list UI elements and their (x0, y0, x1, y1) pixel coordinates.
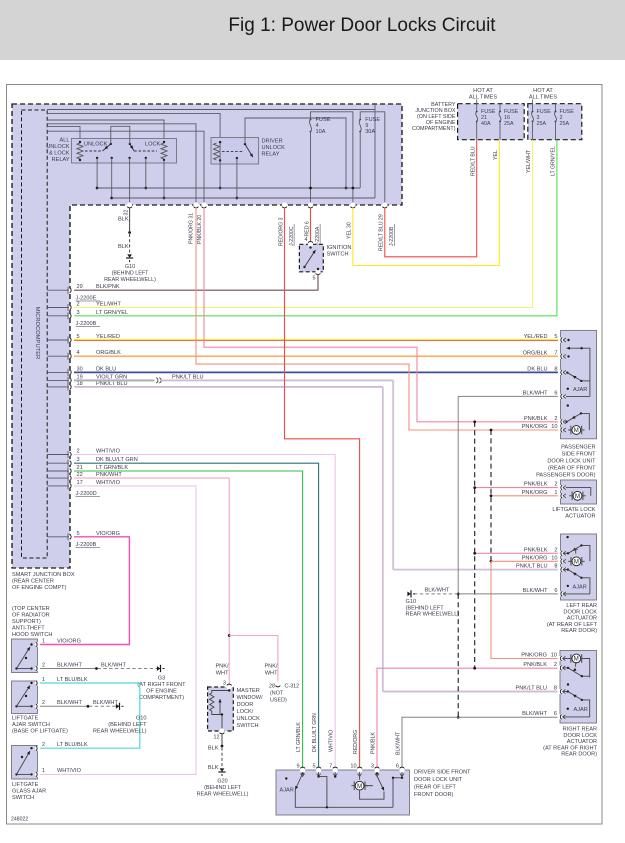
svg-text:10: 10 (350, 764, 356, 770)
svg-text:10: 10 (551, 424, 557, 430)
svg-text:COMPARTMENT): COMPARTMENT) (412, 126, 456, 132)
svg-text:WHT/VIO: WHT/VIO (96, 480, 121, 486)
fuse F4 10A (310, 119, 312, 121)
svg-text:REAR DOOR): REAR DOOR) (561, 752, 597, 758)
wire feed yB to driver relay coil (47, 113, 220, 142)
svg-text:2: 2 (554, 547, 557, 553)
svg-text:COMPARTMENT): COMPARTMENT) (139, 695, 184, 701)
feed stub fuse 21 (476, 100, 478, 111)
SJB pin 2 YEL/WHT (47, 307, 70, 309)
svg-text:SIDE FRONT: SIDE FRONT (562, 452, 596, 458)
SJB pin 3 DK BLU/LT GRN (47, 462, 70, 464)
connector C-312 pin 28 (not used) (275, 681, 280, 686)
svg-text:RED/ORG: RED/ORG (353, 730, 359, 754)
wire PNK/BLK exit20 to passenger pin 2 (204, 208, 559, 422)
svg-text:G10: G10 (136, 716, 147, 722)
svg-text:5: 5 (554, 334, 557, 340)
wire feed yG to exit 20 (47, 131, 204, 205)
svg-text:DOOR LOCK: DOOR LOCK (563, 733, 597, 739)
svg-text:YEL/RED: YEL/RED (524, 334, 548, 340)
wire RED/ORG exit3 to driver pin 10 (285, 208, 360, 769)
svg-text:5: 5 (77, 531, 80, 537)
svg-text:2: 2 (554, 482, 557, 488)
svg-text:J-2200D: J-2200D (76, 491, 97, 497)
svg-text:WINDOW/: WINDOW/ (237, 695, 264, 701)
svg-text:REAR WHEELWELL): REAR WHEELWELL) (93, 729, 147, 735)
fuse F3 25A (532, 111, 534, 113)
svg-text:ALL: ALL (60, 138, 70, 144)
svg-text:WHT: WHT (216, 671, 229, 677)
svg-text:RIGHT REAR: RIGHT REAR (563, 727, 597, 733)
wire PNK/ORG to liftgate actuator pin 1 (491, 495, 559, 497)
exit 6 RED + J-2200A (308, 202, 313, 207)
svg-text:(AT RIGHT FRONT: (AT RIGHT FRONT (137, 682, 186, 688)
svg-text:HOT AT: HOT AT (533, 88, 553, 94)
svg-text:UNLOCK: UNLOCK (262, 145, 286, 151)
svg-text:LOCK: LOCK (145, 142, 161, 148)
wire PNK/WHT branch to connector C-312 pin 28 (229, 636, 278, 684)
svg-text:UNLOCK: UNLOCK (237, 716, 261, 722)
svg-text:(BEHIND LEFT: (BEHIND LEFT (406, 605, 445, 611)
svg-text:RED/ORG 3: RED/ORG 3 (278, 217, 284, 246)
svg-text:MASTER: MASTER (237, 688, 260, 694)
driver side front door lock unit box (276, 770, 410, 815)
svg-text:BLK: BLK (208, 746, 219, 752)
wire driver relay contact up and over to bus1 (245, 118, 346, 188)
svg-text:28: 28 (269, 684, 275, 690)
wire ORG/BLK pin4 to passenger pin 7 (74, 355, 559, 357)
svg-text:G10: G10 (125, 264, 135, 270)
exit 29 RED/LT BLU + J-2200B (382, 202, 387, 207)
svg-text:YEL/WHT: YEL/WHT (526, 149, 532, 173)
exit 31 PNK/ORG (193, 202, 198, 207)
ground G10 (liftgate) (116, 703, 124, 710)
junction dot PNK/BLK bottom (473, 667, 476, 670)
svg-text:PNK/: PNK/ (215, 664, 229, 670)
svg-text:25A: 25A (504, 121, 514, 127)
svg-text:DOOR LOCK UNIT: DOOR LOCK UNIT (414, 777, 463, 783)
svg-text:(BEHIND LEFT: (BEHIND LEFT (112, 271, 150, 277)
svg-text:8: 8 (554, 366, 557, 372)
svg-text:(AT REAR OF LEFT: (AT REAR OF LEFT (547, 622, 598, 628)
svg-text:ORG/BLK: ORG/BLK (96, 350, 121, 356)
svg-text:PNK/ORG: PNK/ORG (522, 555, 548, 561)
wire unlock throw to bus1 (96, 158, 98, 188)
svg-text:SWITCH: SWITCH (327, 252, 349, 258)
svg-text:LT GRN/BLK: LT GRN/BLK (296, 722, 302, 752)
wire DK BLU pin30 to passenger pin 8 (74, 371, 559, 373)
wire VIO/LT GRN pin19 to splice (two-tone) (74, 379, 155, 381)
wire PNK/ORG exit31 to passenger pin 10 (196, 208, 559, 431)
svg-text:10: 10 (551, 653, 557, 659)
wire feed yD to lock relay coil (47, 120, 164, 142)
svg-text:PNK/BLK: PNK/BLK (524, 547, 548, 553)
SJB pin 21 LT GRN/BLK (47, 470, 70, 472)
svg-text:YEL: YEL (493, 150, 499, 160)
svg-text:PNK/BLK 20: PNK/BLK 20 (197, 215, 203, 244)
battery junction box fuse block 1 (458, 104, 525, 140)
ground G20 (218, 768, 225, 776)
svg-text:25A: 25A (560, 121, 570, 127)
unlock throw contacts (96, 157, 98, 159)
driver pin 6 (399, 767, 404, 772)
svg-text:7: 7 (554, 350, 557, 356)
svg-text:AJAR: AJAR (573, 584, 587, 590)
svg-text:OF ENGINE: OF ENGINE (146, 689, 177, 695)
svg-text:DOOR LOCK: DOOR LOCK (563, 609, 597, 615)
svg-text:17: 17 (77, 480, 83, 486)
anti-theft hood switch box (12, 639, 38, 673)
svg-text:10: 10 (551, 555, 557, 561)
svg-text:(REAR OF FRONT: (REAR OF FRONT (548, 466, 596, 472)
svg-text:29: 29 (77, 284, 83, 290)
SJB pin 30 DK BLU (47, 371, 70, 373)
svg-text:DOOR LOCK UNIT: DOOR LOCK UNIT (547, 459, 596, 465)
driver pin 10 (357, 767, 362, 772)
liftgate ajar switch internals (30, 682, 32, 684)
wire PNK/LT BLU splice to left rear pin 8 (two-tone) (161, 380, 559, 569)
splice symbol (156, 378, 161, 383)
svg-text:2: 2 (42, 742, 45, 748)
svg-text:1: 1 (42, 768, 45, 774)
svg-text:DRIVER SIDE FRONT: DRIVER SIDE FRONT (414, 770, 471, 776)
pin 10 PNK/ORG (558, 559, 563, 564)
wire BLK/WHT liftgate ajar to ground G10 (40, 705, 87, 707)
pin 6 BLK/WHT (557, 714, 562, 719)
SJB pin 17 WHT/VIO (47, 485, 70, 487)
wire PNK/BLK bottom run driver pin 2 to right rear pin 2 (377, 668, 559, 768)
SJB pin 5 YEL/RED (47, 339, 70, 341)
svg-text:6: 6 (554, 711, 557, 717)
driver pin 7 (333, 767, 338, 772)
svg-text:PNK/ORG: PNK/ORG (522, 490, 548, 496)
svg-text:RED/LT BLU: RED/LT BLU (470, 146, 476, 176)
pin 10 PNK/ORG (558, 427, 563, 432)
pin 8 PNK/LT BLU (557, 689, 562, 694)
svg-text:5: 5 (313, 276, 316, 282)
svg-text:AJAR SWITCH: AJAR SWITCH (12, 722, 50, 728)
driver lock motor (359, 772, 361, 780)
contact bridge over switch bars (111, 126, 130, 144)
feed stub fuse 3 (532, 100, 534, 111)
master switch box (208, 687, 234, 731)
distribution dashed PNK/BLK vertical (474, 422, 476, 668)
svg-text:DK BLU/LT GRN: DK BLU/LT GRN (96, 457, 138, 463)
wire PNK/WHT pin22 to master switch pin 3 (74, 478, 229, 685)
relay box ALL UNLOCK & LOCK (72, 139, 177, 164)
wire feed yE to unlock relay coil (47, 127, 80, 142)
svg-text:PNK/BLK: PNK/BLK (371, 732, 377, 754)
svg-text:(TOP CENTER: (TOP CENTER (12, 606, 50, 612)
svg-text:PNK/: PNK/ (264, 664, 278, 670)
wire BLK/WHT dashed vertical down (457, 594, 459, 717)
wire feed yA (47, 109, 375, 111)
left rear internals (566, 536, 568, 538)
driver relay switch (dashed bar and arm) (222, 151, 244, 153)
svg-text:3: 3 (77, 457, 80, 463)
liftgate glass ajar switch box (12, 746, 38, 780)
svg-text:AJAR: AJAR (574, 707, 588, 713)
svg-text:22: 22 (77, 472, 83, 478)
svg-text:8: 8 (554, 564, 557, 570)
svg-text:5: 5 (312, 764, 315, 770)
svg-text:OF ENGINE COMPT): OF ENGINE COMPT) (12, 585, 67, 591)
microcomputer box (22, 110, 48, 558)
svg-text:ACTUATOR: ACTUATOR (567, 739, 597, 745)
fuse F16 25A (499, 104, 501, 112)
junction dot BLK/WHT at G10 branch (457, 593, 460, 596)
svg-text:LT GRN/YEL: LT GRN/YEL (96, 310, 128, 316)
svg-text:M: M (574, 657, 579, 663)
svg-text:BLK/WHT: BLK/WHT (57, 663, 82, 669)
wire feed yC to exit 31 (47, 124, 196, 205)
svg-text:6: 6 (554, 390, 557, 396)
svg-text:IGNITION: IGNITION (327, 245, 352, 251)
svg-text:PNK/WHT: PNK/WHT (96, 472, 122, 478)
junction dot BLK/WHT bottom (457, 716, 460, 719)
svg-text:BLK/WHT: BLK/WHT (522, 711, 547, 717)
wire WHT/VIO pin17 to liftgate glass ajar pin 1 (40, 486, 196, 775)
svg-text:PNK/BLK: PNK/BLK (523, 662, 547, 668)
exit BLK 32 (127, 202, 132, 207)
fuse F2 25A (555, 104, 557, 112)
svg-text:3: 3 (223, 681, 226, 687)
svg-text:LT GRN/BLK: LT GRN/BLK (96, 465, 128, 471)
bus1 (97, 187, 360, 189)
title band (0, 0, 625, 60)
svg-text:32: 32 (123, 210, 129, 216)
svg-text:1: 1 (42, 677, 45, 683)
svg-text:LT BLU/BLK: LT BLU/BLK (57, 677, 88, 683)
svg-text:ACTUATOR: ACTUATOR (567, 616, 597, 622)
right rear door lock actuator box (560, 651, 597, 724)
svg-text:9: 9 (296, 764, 299, 770)
svg-text:M: M (574, 428, 579, 434)
liftgate ajar switch box (12, 681, 38, 714)
svg-text:WHT/VIO: WHT/VIO (329, 730, 335, 752)
svg-text:SWITCH: SWITCH (12, 795, 34, 801)
svg-text:2: 2 (77, 449, 80, 455)
svg-text:2: 2 (42, 700, 45, 706)
svg-text:BLK: BLK (118, 217, 129, 223)
SJB pin 2 WHT/VIO (47, 454, 70, 456)
wire PNK/LT BLU pin18 to right rear pin 8 (two-tone) (74, 387, 559, 692)
pin 2 PNK/BLK (558, 551, 563, 556)
svg-text:RELAY: RELAY (262, 152, 280, 158)
svg-text:YEL/WHT: YEL/WHT (96, 302, 121, 308)
svg-text:10A: 10A (316, 129, 326, 135)
svg-text:8: 8 (554, 686, 557, 692)
svg-text:(BEHIND LEFT: (BEHIND LEFT (204, 785, 242, 791)
pin 2 PNK/BLK (557, 665, 562, 670)
wire BLK/WHT dashed to ground G10 (414, 593, 458, 595)
wire BLK/WHT to driver pin 6 (402, 717, 458, 768)
svg-text:FRONT DOOR): FRONT DOOR) (414, 792, 453, 798)
wire YEL/RED pin5 to passenger pin 5 (two-tone) (74, 339, 559, 341)
driver relay coil (214, 143, 220, 160)
svg-text:REAR WHEELWELL): REAR WHEELWELL) (406, 612, 460, 618)
svg-text:J-2200B: J-2200B (76, 321, 97, 327)
svg-text:(NOT: (NOT (270, 691, 284, 697)
svg-text:DRIVER: DRIVER (262, 139, 283, 145)
svg-text:DOOR: DOOR (237, 702, 254, 708)
svg-text:PNK/LT BLU: PNK/LT BLU (515, 686, 547, 692)
svg-text:BLK/WHT: BLK/WHT (523, 588, 548, 594)
svg-text:LEFT REAR: LEFT REAR (566, 603, 597, 609)
svg-text:PNK/BLK: PNK/BLK (524, 482, 548, 488)
svg-text:ORG/BLK: ORG/BLK (523, 350, 548, 356)
svg-text:AJAR: AJAR (280, 788, 294, 794)
lock relay switch (dashed bar and arm) (134, 150, 157, 152)
svg-text:RED/LT BLU 29: RED/LT BLU 29 (379, 214, 385, 251)
master switch internals (212, 689, 229, 693)
svg-text:1: 1 (554, 490, 557, 496)
pin 6 BLK/WHT (558, 394, 563, 399)
svg-text:BLK/WHT: BLK/WHT (57, 700, 82, 706)
svg-text:HOOD SWITCH: HOOD SWITCH (12, 632, 52, 638)
svg-text:RED 6: RED 6 (304, 221, 310, 236)
wire RED exit6 to ignition pin 4 (310, 208, 312, 242)
relay box DRIVER UNLOCK (211, 138, 259, 165)
ignition switch box (299, 244, 323, 271)
svg-text:1: 1 (42, 639, 45, 645)
battery junction box fuse block 2 (528, 104, 582, 140)
svg-text:AJAR: AJAR (573, 387, 587, 393)
wire VIO/ORG pin5 to hood switch pin 1 (40, 537, 129, 645)
svg-text:G20: G20 (217, 779, 227, 785)
wire YEL/WHT fuse3 to pin 2 (74, 140, 533, 308)
SJB pin 4 ORG/BLK (47, 355, 70, 357)
exit 3 RED/ORG + J-2200C (282, 202, 287, 207)
wire vertical top edge to bus2 (374, 104, 376, 198)
ground G3 (157, 665, 165, 672)
svg-text:SMART JUNCTION BOX: SMART JUNCTION BOX (12, 572, 75, 578)
svg-text:LIFTGATE: LIFTGATE (12, 716, 39, 722)
SJB pin 22 PNK/WHT (47, 477, 70, 479)
liftgate lock actuator box (561, 480, 597, 504)
ground G10 (right rear area) (407, 590, 415, 597)
svg-text:21: 21 (77, 465, 83, 471)
svg-text:REAR WHEELWELL): REAR WHEELWELL) (104, 277, 156, 283)
pin 7 ORG/BLK (558, 354, 563, 359)
pin 5 YEL/RED (558, 337, 563, 342)
svg-text:VIO/ORG: VIO/ORG (57, 639, 81, 645)
left rear motor (568, 560, 571, 562)
svg-text:WHT/VIO: WHT/VIO (57, 768, 82, 774)
svg-text:BLK: BLK (208, 765, 219, 771)
driver pin 3 (374, 767, 379, 772)
svg-text:WHT/VIO: WHT/VIO (96, 449, 121, 455)
wire fuse4 top loop to exit 30 (311, 112, 353, 205)
lock relay coil (161, 143, 167, 159)
svg-text:OF RADIATOR: OF RADIATOR (12, 613, 50, 619)
wire fuse9 bottom to bus1 corner (359, 132, 361, 189)
svg-text:J-2200B: J-2200B (76, 542, 97, 548)
svg-text:40A: 40A (481, 121, 491, 127)
svg-text:2: 2 (77, 302, 80, 308)
wire BLK/PNK ignition pin5 to SJB pin 29 (74, 274, 318, 290)
svg-text:4: 4 (77, 350, 80, 356)
svg-text:VIO/ORG: VIO/ORG (96, 531, 120, 537)
bus2 (112, 197, 375, 199)
passenger internals (567, 339, 569, 341)
wire YEL fuse16 to exit 30 (353, 140, 500, 266)
svg-text:HOT AT: HOT AT (473, 88, 493, 94)
wire WHT/VIO pin2 to driver pin 7 (74, 455, 335, 769)
hood switch internals (30, 643, 32, 645)
svg-text:ANTI-THEFT: ANTI-THEFT (12, 626, 45, 632)
svg-text:PASSENGER'S DOOR): PASSENGER'S DOOR) (536, 473, 596, 479)
left rear door lock actuator box (561, 534, 597, 600)
junction dot PNK/BLK at passenger feed (473, 420, 476, 423)
wire LT GRN/BLK pin21 to driver pin 9 (74, 471, 303, 769)
svg-text:SUPPORT): SUPPORT) (12, 619, 41, 625)
wire lock coil to bus2 (163, 160, 165, 198)
svg-text:6: 6 (396, 764, 399, 770)
wire lock throw to bus1 (145, 158, 147, 188)
svg-text:BLK/PNK: BLK/PNK (96, 284, 120, 290)
junction dot PNK/WHT branch (228, 634, 231, 637)
svg-text:DK BLU: DK BLU (527, 366, 547, 372)
fuse F21 40A (476, 111, 478, 113)
liftgate glass ajar internals (30, 747, 32, 749)
pin 2 PNK/BLK (558, 419, 563, 424)
pin 2 PNK/BLK (558, 485, 563, 490)
unlock relay switch (dashed bar and arm) (85, 150, 103, 152)
right rear internals (563, 667, 569, 669)
wire driver coil to bus1 (219, 161, 221, 189)
svg-text:(BASE OF LIFTGATE): (BASE OF LIFTGATE) (12, 729, 68, 735)
pin 1 PNK/ORG (558, 493, 563, 498)
wire driver relay throw to bus2 (236, 158, 238, 198)
svg-text:LIFTGATE: LIFTGATE (12, 782, 39, 788)
lock throw contacts (128, 157, 130, 159)
svg-text:YEL 30: YEL 30 (347, 222, 353, 239)
wire relay common to BLK exit (129, 158, 131, 205)
svg-text:USED): USED) (270, 698, 287, 704)
wire PNK/BLK to left rear pin 2 (475, 552, 559, 554)
svg-text:PNK/BLK: PNK/BLK (524, 416, 548, 422)
svg-text:ALL TIMES: ALL TIMES (529, 95, 558, 101)
svg-text:2: 2 (42, 663, 45, 669)
svg-text:UNLOCK: UNLOCK (84, 142, 108, 148)
svg-text:7: 7 (329, 764, 332, 770)
svg-text:PNK/ORG: PNK/ORG (521, 653, 547, 659)
passenger lock motor (568, 429, 571, 431)
svg-text:BLK/WHT: BLK/WHT (425, 587, 450, 593)
right rear motor (568, 658, 571, 660)
wire BLK to ground G10 (129, 208, 131, 232)
wire unlock throw to bus2 (111, 158, 113, 198)
svg-text:LOCK/: LOCK/ (237, 709, 254, 715)
svg-text:LIFTGATE LOCK: LIFTGATE LOCK (552, 507, 595, 513)
svg-text:REAR DOOR): REAR DOOR) (561, 628, 597, 634)
wire RED/LT BLU fuse21 to exit 29 (385, 140, 477, 257)
wire PNK/BLK to liftgate actuator pin 2 (475, 487, 559, 489)
svg-text:30A: 30A (365, 129, 375, 135)
wire DK BLU/LT GRN pin3 to driver pin 5 (74, 463, 319, 768)
pin 8 DK BLU (558, 370, 563, 375)
svg-text:3: 3 (77, 310, 80, 316)
pin 6 BLK/WHT (558, 591, 563, 596)
exit 30 YEL (350, 202, 355, 207)
svg-text:PNK/ORG 31: PNK/ORG 31 (189, 213, 195, 244)
smart junction box (L-shaped, dashed) (12, 104, 402, 568)
unlock relay coil (77, 143, 83, 159)
svg-text:(BEHIND LEFT: (BEHIND LEFT (108, 722, 147, 728)
SJB pin 19 VIO/LT GRN (47, 379, 70, 381)
svg-text:2: 2 (554, 416, 557, 422)
